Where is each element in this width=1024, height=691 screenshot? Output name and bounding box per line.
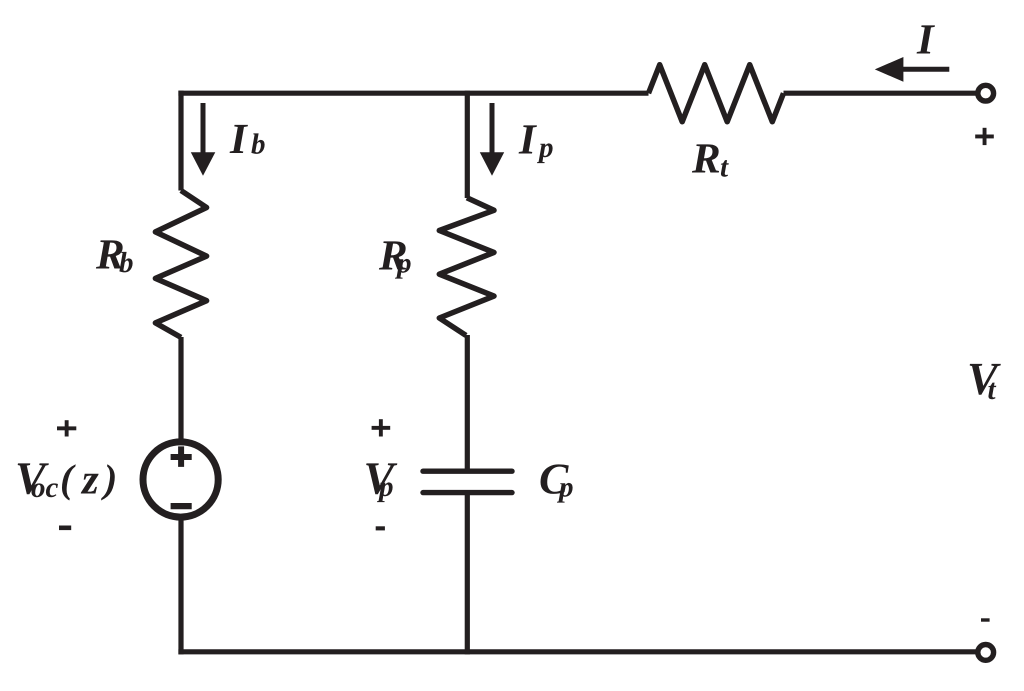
label Rp	[378, 233, 412, 280]
current arrow I (into + terminal)	[875, 57, 950, 82]
svg-text:V: V	[967, 353, 1001, 404]
current arrow Ib	[191, 103, 216, 176]
voltage source plus mark	[171, 446, 192, 467]
label - (Vp polarity)	[376, 526, 385, 530]
wire top-left horizontal (node A to Rt)	[178, 91, 648, 96]
capacitor Cp top plate	[423, 469, 512, 474]
svg-text:z: z	[80, 457, 99, 504]
terminal node + (top right)	[978, 85, 994, 101]
label Voc(z)	[15, 453, 117, 504]
svg-text:b: b	[119, 247, 134, 279]
svg-text:I: I	[518, 117, 537, 164]
svg-text:): )	[101, 456, 117, 501]
label + (Voc polarity)	[57, 420, 76, 436]
label Vt	[967, 353, 1001, 406]
capacitor Cp bottom plate	[423, 490, 512, 495]
svg-text:t: t	[988, 374, 997, 406]
label Ib	[229, 116, 266, 163]
svg-text:p: p	[556, 472, 574, 504]
label Rb	[95, 231, 134, 279]
voltage source Voc(z) circle	[143, 442, 218, 517]
wire left vertical middle (Rb to source Voc)	[178, 337, 183, 443]
resistor Rp	[439, 198, 494, 336]
svg-text:oc: oc	[31, 472, 59, 504]
current arrow Ip	[480, 103, 504, 176]
svg-text:I: I	[916, 16, 935, 63]
label Cp	[539, 455, 574, 504]
resistor Rt	[649, 65, 784, 122]
label Vp	[364, 453, 398, 504]
wire middle vertical (Rp to capacitor Cp)	[465, 335, 470, 471]
label + (terminal polarity)	[975, 128, 994, 145]
svg-text:t: t	[720, 152, 729, 184]
wire bottom rail	[178, 649, 976, 654]
svg-text:b: b	[251, 129, 266, 161]
wire middle vertical lower (Cp to bottom rail)	[465, 493, 470, 655]
wire left vertical lower (source to bottom rail)	[178, 517, 183, 655]
label Rt	[691, 136, 729, 184]
label - (Voc polarity)	[59, 526, 71, 531]
label + (Vp polarity)	[372, 419, 391, 436]
svg-text:p: p	[376, 471, 394, 503]
label Ip	[518, 117, 554, 165]
svg-text:I: I	[229, 116, 248, 163]
wire middle vertical upper (node B down to Rp)	[465, 91, 470, 198]
wire top-right horizontal (Rt to terminal +)	[784, 91, 977, 96]
svg-text:R: R	[691, 136, 721, 183]
resistor Rb	[155, 191, 206, 338]
wire left vertical upper (node A down to Rb)	[178, 91, 183, 191]
svg-text:p: p	[536, 132, 554, 164]
terminal node - (bottom right)	[978, 645, 994, 661]
voltage source minus mark	[171, 503, 192, 509]
svg-text:p: p	[394, 248, 412, 280]
label - (terminal polarity)	[981, 618, 990, 621]
